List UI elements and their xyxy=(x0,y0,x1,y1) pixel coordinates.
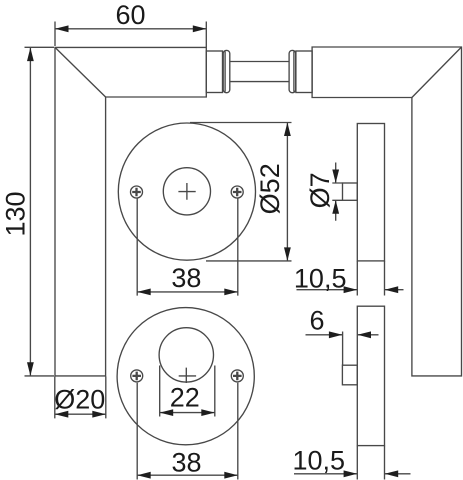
svg-text:60: 60 xyxy=(115,0,145,30)
dim O7 extension lines xyxy=(332,183,342,200)
dim 60 extension lines xyxy=(55,22,206,48)
lower rosette cylinder hole circle xyxy=(159,328,213,382)
svg-text:6: 6 xyxy=(309,306,324,336)
dim 38 upper arrowheads xyxy=(137,289,151,296)
right handle chamfer line xyxy=(412,47,462,98)
dim O20 extension lines xyxy=(55,377,106,419)
upper rosette left screw xyxy=(131,186,143,198)
svg-text:Ø7: Ø7 xyxy=(305,172,335,208)
dim 10,5 upper extension gap lines xyxy=(357,261,384,296)
upper rosette side view screw boss xyxy=(343,183,358,200)
lower rosette left screw xyxy=(131,370,143,382)
dim 6 arrow lines xyxy=(306,334,379,336)
dim 22 line xyxy=(160,412,215,414)
upper rosette right screw xyxy=(231,186,243,198)
dim 6 extension line xyxy=(342,332,344,366)
lower rosette side view plate xyxy=(357,306,384,445)
dim 22 arrowheads xyxy=(160,409,174,416)
left handle collar xyxy=(206,51,222,93)
svg-text:38: 38 xyxy=(171,447,201,477)
upper rosette center cross xyxy=(178,183,195,200)
svg-text:Ø52: Ø52 xyxy=(255,163,285,214)
upper rosette inner circle xyxy=(163,168,210,215)
svg-text:38: 38 xyxy=(171,263,201,293)
dim 60 line xyxy=(55,28,206,30)
dim 10,5 upper arrow lines xyxy=(297,289,404,291)
dim O20 arrowheads xyxy=(55,411,69,418)
right handle body outline xyxy=(312,47,461,376)
dim 10,5 lower extension lines xyxy=(357,446,384,480)
left handle body outline xyxy=(55,47,206,376)
dim 22 extension lines xyxy=(160,366,215,417)
dim 6 arrowheads xyxy=(329,331,343,338)
svg-text:Ø20: Ø20 xyxy=(54,385,105,415)
dim 10,5 upper arrowheads xyxy=(344,286,358,293)
dim 38 upper line xyxy=(137,291,238,293)
dim 130 line xyxy=(29,48,31,376)
left handle flange xyxy=(223,50,230,92)
dim 38 lower line xyxy=(137,474,238,476)
dim O20 line xyxy=(55,413,106,415)
right handle flange inner line xyxy=(293,51,295,92)
spindle xyxy=(230,62,289,82)
dim O7 arrow lines xyxy=(335,163,337,221)
lower rosette outer circle xyxy=(117,308,254,445)
dim 38 upper extension lines xyxy=(137,198,238,295)
lower rosette center cross xyxy=(179,368,196,383)
left handle chamfer line xyxy=(55,47,106,97)
svg-text:10,5: 10,5 xyxy=(294,263,347,293)
dim 130 arrowheads xyxy=(27,48,34,62)
svg-text:130: 130 xyxy=(1,191,31,236)
dim 130 extension lines xyxy=(25,47,55,376)
right handle collar xyxy=(296,51,312,93)
dim 10,5 lower arrowheads xyxy=(344,470,358,477)
lower rosette right screw xyxy=(231,370,243,382)
dim 38 lower extension lines xyxy=(137,383,238,480)
svg-text:22: 22 xyxy=(170,383,200,413)
dim 10,5 lower arrow lines xyxy=(294,473,411,475)
dim O52 extension lines xyxy=(190,123,292,261)
lower rosette side view screw boss xyxy=(342,365,357,385)
dim 38 lower arrowheads xyxy=(137,472,151,479)
dim O52 arrowheads xyxy=(284,123,291,137)
dim O52 line xyxy=(286,123,288,261)
right handle flange xyxy=(289,50,296,92)
upper rosette outer circle xyxy=(118,123,255,260)
dim O7 arrowheads xyxy=(332,170,339,184)
left handle flange inner line xyxy=(224,51,226,92)
dim 60 arrowheads xyxy=(55,25,69,32)
svg-text:10,5: 10,5 xyxy=(293,445,346,475)
upper rosette side view plate xyxy=(357,124,384,261)
